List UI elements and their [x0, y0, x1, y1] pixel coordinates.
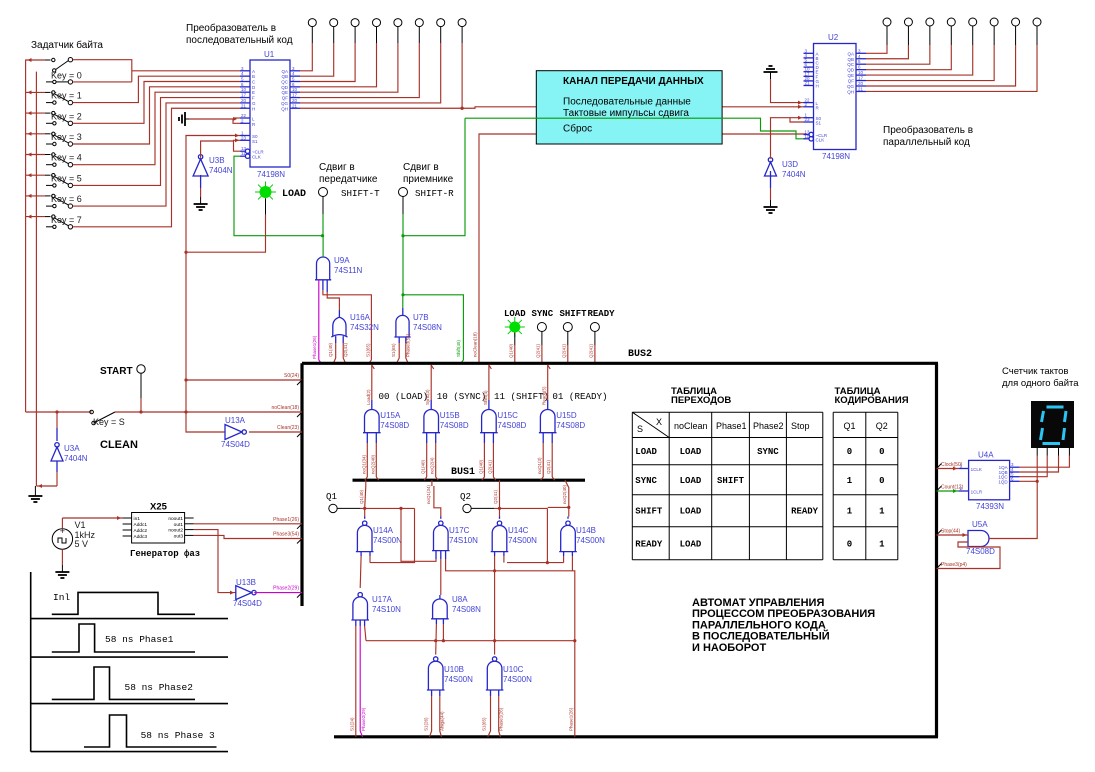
svg-text:Q2(41): Q2(41)	[487, 459, 492, 474]
svg-text:последовательный код: последовательный код	[186, 35, 293, 46]
timing separator 1	[31, 618, 228, 620]
svg-text:0: 0	[879, 447, 884, 457]
svg-text:START: START	[100, 366, 133, 377]
wire U10B inputs to bottom bus	[431, 690, 433, 696]
wire U1 QE to connector	[300, 43, 398, 92]
wire U3B output to U1 S1 and CLR	[201, 140, 240, 158]
connector indicator SYNC	[537, 323, 546, 332]
bus box bottom edge	[334, 735, 938, 738]
wire V1 to X25 in1	[61, 518, 63, 529]
wire U14B output cross link	[548, 506, 569, 508]
svg-text:23: 23	[241, 135, 247, 140]
svg-text:23: 23	[805, 117, 811, 122]
svg-text:H: H	[816, 84, 819, 89]
svg-text:00 (LOAD): 00 (LOAD)	[379, 391, 429, 402]
ground sideways near U1	[185, 118, 189, 120]
svg-text:noout1: noout1	[168, 516, 183, 522]
svg-text:S1(24): S1(24)	[350, 717, 355, 731]
connector SHIFT-T	[319, 188, 328, 197]
wire U14C output up	[499, 508, 501, 516]
svg-text:передатчике: передатчике	[319, 174, 378, 185]
svg-text:SHIFT-R: SHIFT-R	[415, 188, 454, 199]
svg-text:7404N: 7404N	[209, 166, 233, 175]
svg-text:74S10N: 74S10N	[449, 536, 478, 545]
svg-text:58 ns Phase 3: 58 ns Phase 3	[141, 730, 215, 741]
table coding grid	[832, 412, 834, 560]
wire X25 noout2 to U13B	[194, 530, 236, 593]
stub noClean(18) on box left edge	[297, 412, 302, 417]
wire U15B output to BUS2	[430, 400, 432, 410]
svg-text:11: 11	[805, 134, 810, 139]
wire U13A output Clean to box	[249, 431, 302, 433]
svg-text:noClean(18): noClean(18)	[473, 332, 478, 357]
svg-text:74S08D: 74S08D	[556, 421, 585, 430]
junction dots on S0 net	[184, 251, 187, 254]
wire U14C input1 down to U10C output	[494, 552, 496, 556]
wire ground to U1 L R pins	[189, 119, 240, 123]
svg-text:Stop: Stop	[791, 421, 810, 431]
wire SYNC indicator to bus2	[541, 332, 543, 346]
switch Key = 2	[26, 112, 45, 114]
svg-text:74S04D: 74S04D	[233, 599, 262, 608]
IC U2 74198N body	[814, 44, 857, 150]
wire Q1 to U17C input1	[401, 508, 436, 561]
svg-text:Последовательные данные: Последовательные данные	[563, 97, 691, 108]
wire U7B output green up	[402, 295, 404, 308]
svg-text:58 ns Phase1: 58 ns Phase1	[105, 634, 174, 645]
svg-text:noQ2(40): noQ2(40)	[562, 484, 567, 504]
wire inner bus corner to ground	[36, 485, 57, 487]
svg-text:74S04D: 74S04D	[221, 440, 250, 449]
svg-text:B: B	[252, 74, 255, 79]
waveform Phase1	[52, 624, 195, 652]
svg-text:17: 17	[292, 93, 298, 98]
inverter U13B 74S04D	[236, 586, 252, 600]
svg-text:21: 21	[292, 103, 298, 108]
svg-text:1: 1	[879, 507, 885, 517]
svg-text:QA: QA	[281, 69, 288, 74]
wire U3B input to ground	[200, 175, 202, 188]
wire V1 to ground	[61, 549, 63, 565]
svg-text:QA: QA	[847, 51, 854, 56]
switch Key = 6	[26, 195, 45, 197]
timing separator 2	[31, 656, 228, 658]
wire U1 QG to connector	[300, 43, 441, 103]
svg-text:74S00N: 74S00N	[503, 675, 532, 684]
wire Q2 node line	[471, 507, 494, 509]
inverter U3A 7404N below CLEAN wire	[56, 412, 58, 428]
svg-text:74198N: 74198N	[822, 152, 850, 161]
svg-text:SHIFT: SHIFT	[635, 507, 663, 517]
svg-text:SYNC: SYNC	[532, 309, 554, 319]
svg-text:Ready(5): Ready(5)	[542, 386, 547, 405]
connector J6 top-left	[415, 19, 423, 27]
svg-text:A: A	[252, 69, 255, 74]
wire U16A input1 to bus2	[335, 336, 337, 343]
wire U3A input to ground corner	[56, 461, 58, 472]
bus box right edge	[935, 363, 938, 737]
svg-text:для одного байта: для одного байта	[1002, 378, 1079, 389]
wire Stop stub to U5A input1	[937, 534, 969, 536]
connector J3 top-left	[351, 19, 359, 27]
bus BUS1	[353, 479, 586, 482]
wire U2 QA to connector	[866, 45, 887, 53]
svg-text:0: 0	[847, 447, 852, 457]
wire BUS1 stub to U17C output	[431, 480, 433, 486]
bus box left edge	[300, 363, 303, 606]
timing diagram axis	[30, 572, 32, 752]
svg-text:Преобразователь в: Преобразователь в	[883, 124, 973, 136]
svg-text:BUS2: BUS2	[628, 349, 652, 360]
LED LOAD state indicator green star	[505, 317, 525, 337]
wire SHIFT indicator to bus2	[567, 332, 569, 346]
wire lower rail horizontal	[366, 640, 575, 642]
svg-text:И НАОБОРОТ: И НАОБОРОТ	[692, 642, 766, 654]
svg-text:Счетчик тактов: Счетчик тактов	[1002, 366, 1068, 377]
svg-text:S1(65): S1(65)	[482, 717, 487, 731]
NAND gate U14C 74S00N	[497, 521, 501, 525]
U1 pins S0 S1	[240, 135, 250, 137]
7-segment digit 0 cyan segments	[1041, 407, 1067, 444]
svg-text:CLEAN: CLEAN	[100, 439, 138, 451]
svg-text:Phase3(p4): Phase3(p4)	[941, 562, 967, 568]
svg-text:U14C: U14C	[508, 526, 529, 535]
connector indicator READY	[590, 323, 599, 332]
NAND gate U14B 74S00N	[566, 521, 570, 525]
svg-text:7404N: 7404N	[782, 170, 806, 179]
wire U16A input2 to bus2	[342, 336, 344, 343]
wire BUS1 stub to Q1 node	[365, 480, 367, 486]
timing separator 3	[31, 703, 228, 705]
svg-text:01 (READY): 01 (READY)	[552, 391, 607, 402]
svg-text:Sync(3): Sync(3)	[425, 389, 430, 405]
svg-text:Q1: Q1	[326, 491, 338, 502]
svg-text:out3: out3	[174, 533, 184, 539]
wire U3D input to ground	[770, 176, 772, 188]
svg-text:U14B: U14B	[576, 526, 596, 535]
svg-text:74S08N: 74S08N	[452, 605, 481, 614]
svg-text:ПАРАЛЛЕЛЬНОГО КОДА: ПАРАЛЛЕЛЬНОГО КОДА	[692, 619, 826, 631]
svg-text:Phase1: Phase1	[716, 421, 747, 431]
svg-text:Phase1(26): Phase1(26)	[273, 517, 299, 523]
AND gate U9A 74S11N	[317, 257, 330, 280]
svg-text:Phase3(54): Phase3(54)	[406, 333, 411, 357]
table header diagonal	[632, 412, 669, 437]
svg-text:приемнике: приемнике	[403, 174, 454, 185]
ground above U2 L pin	[770, 72, 772, 79]
stub Count(12) on box right edge	[937, 486, 942, 491]
switch Key = 4	[26, 154, 45, 156]
svg-text:SYNC: SYNC	[635, 476, 657, 486]
svg-text:noQ1(34): noQ1(34)	[361, 454, 366, 474]
svg-text:LOAD: LOAD	[282, 189, 306, 200]
wire Clock stub to U4A 1CLK	[937, 468, 959, 470]
svg-text:LOAD: LOAD	[680, 507, 702, 517]
svg-text:U15A: U15A	[380, 411, 401, 420]
wire U15B inputs to BUS1	[426, 433, 428, 443]
svg-text:74S32N: 74S32N	[350, 323, 379, 332]
AND gate U5A 74S08D	[968, 531, 989, 547]
connector K7 top-right	[1012, 18, 1020, 26]
wire Q1 node line	[337, 507, 361, 509]
svg-text:5 V: 5 V	[75, 539, 89, 549]
svg-text:QD: QD	[847, 68, 855, 73]
AND gate U15D 74S08D	[540, 410, 555, 433]
wire U13B output Phase2 magenta to box	[254, 592, 302, 594]
connector K4 top-right	[947, 18, 955, 26]
wire green U1 CLK to SHIFT-T node	[234, 156, 323, 236]
svg-text:S1: S1	[816, 121, 822, 126]
wire Q1 feedback to U14A input2	[370, 508, 415, 562]
connector K2 top-right	[904, 18, 912, 26]
wire noClean bus2 to channel reset	[479, 134, 806, 363]
svg-text:Phase1(26): Phase1(26)	[312, 335, 317, 359]
svg-text:noQ1(3): noQ1(3)	[537, 457, 542, 474]
svg-text:Преобразователь в: Преобразователь в	[186, 22, 276, 34]
wire READY indicator to bus2	[594, 332, 596, 346]
svg-text:Тактовые импульсы сдвига: Тактовые импульсы сдвига	[563, 108, 689, 119]
svg-text:Load(2): Load(2)	[366, 389, 371, 405]
svg-text:QF: QF	[848, 79, 855, 84]
inverter U13A 74S04D	[225, 425, 242, 440]
svg-text:Inl: Inl	[53, 592, 70, 603]
svg-text:noQ1(34): noQ1(34)	[426, 484, 431, 504]
wire U5A output to 7seg stub	[989, 481, 1037, 538]
svg-text:G: G	[252, 101, 256, 106]
svg-text:U10C: U10C	[503, 665, 524, 674]
stub Stop(44) on box right edge	[937, 530, 942, 535]
connector K5 top-right	[969, 18, 977, 26]
wire U1 QC to connector	[300, 43, 355, 82]
svg-text:SHIFT: SHIFT	[717, 476, 745, 486]
svg-text:Clock(50): Clock(50)	[941, 462, 963, 468]
svg-text:0: 0	[879, 476, 884, 486]
svg-text:noout2: noout2	[168, 528, 183, 534]
svg-text:74S00N: 74S00N	[508, 536, 537, 545]
block КАНАЛ ПЕРЕДАЧИ ДАННЫХ cyan box	[536, 71, 722, 144]
svg-text:F: F	[252, 96, 255, 101]
timing bottom line	[31, 751, 228, 753]
wire SHIFT-R down green	[402, 197, 404, 215]
svg-text:QB: QB	[281, 74, 288, 79]
U2 right pins QA-QH	[856, 52, 866, 54]
AND gate U15A 74S08D	[365, 410, 380, 433]
wire U17C input3 to lower rail	[445, 551, 447, 559]
svg-text:U16A: U16A	[350, 313, 371, 322]
wire U17C input2 down to U8A output	[440, 551, 442, 559]
svg-text:Key = 4: Key = 4	[51, 153, 82, 163]
svg-text:Q1(40): Q1(40)	[421, 459, 426, 474]
svg-text:Key = 6: Key = 6	[51, 194, 82, 204]
ground below U3B	[200, 197, 202, 204]
svg-text:QC: QC	[847, 62, 855, 67]
svg-text:LOAD: LOAD	[635, 447, 657, 457]
wire LOAD indicator to bus2	[514, 333, 516, 346]
svg-text:U17C: U17C	[449, 526, 470, 535]
NAND gate U17A 74S10N	[358, 593, 362, 597]
svg-text:Key = 1: Key = 1	[51, 91, 82, 101]
svg-text:U8A: U8A	[452, 595, 468, 604]
wire U1 QF to connector	[300, 43, 419, 98]
svg-text:10 (SYNC): 10 (SYNC)	[437, 391, 487, 402]
svg-text:Q1(40): Q1(40)	[328, 342, 333, 357]
svg-text:Q1(40): Q1(40)	[359, 489, 364, 504]
wire Phase3 stub to U5A input2	[937, 542, 1001, 569]
wire U14A output up	[364, 508, 366, 516]
svg-text:U2: U2	[828, 33, 839, 42]
svg-text:Сброс: Сброс	[563, 123, 592, 135]
wire LED LOAD down to S0 net	[265, 199, 267, 215]
wire switch 4 to U1 pin	[73, 92, 240, 165]
wires U4A outputs to 7seg	[1020, 456, 1070, 468]
wire green Count stub to U4A 1CLR	[937, 490, 959, 492]
svg-text:QB: QB	[847, 57, 854, 62]
wire net S0/noClean vertical	[186, 136, 240, 433]
svg-text:Q1(40): Q1(40)	[509, 343, 514, 358]
svg-text:Phase2(29): Phase2(29)	[361, 707, 366, 731]
svg-text:Задатчик байта: Задатчик байта	[31, 39, 103, 51]
wire U9A input3 to U16A output	[326, 280, 328, 292]
wire BUS1 stub to Q2 node	[499, 480, 501, 486]
svg-text:QH: QH	[847, 89, 854, 94]
wire X25 out1 Phase1 to box	[194, 523, 302, 525]
svg-text:U7B: U7B	[413, 313, 429, 322]
wire U8A inputs	[435, 619, 437, 624]
svg-text:1: 1	[879, 539, 885, 549]
stub Clock(50) on box right edge	[937, 464, 942, 469]
svg-text:22: 22	[241, 113, 247, 118]
wire U7B input1 to bus2	[398, 337, 400, 343]
svg-text:74393N: 74393N	[976, 502, 1004, 511]
U1 left pins A-H	[240, 70, 250, 72]
wire U14A input1 down to U17A output	[360, 552, 362, 556]
ground below V1	[61, 565, 63, 572]
svg-text:QG: QG	[847, 84, 855, 89]
wire Q2 feedback to U14C input2 and U14B input1	[507, 508, 547, 562]
connector K1 top-right	[883, 18, 891, 26]
svg-text:Count(12): Count(12)	[941, 485, 964, 491]
wire switch 0 to U1 pin A	[73, 60, 132, 82]
stub S0(24) on box left edge	[186, 379, 302, 381]
wire U2 QB to connector	[866, 45, 908, 59]
svg-text:Phase3(54): Phase3(54)	[273, 532, 299, 538]
inverter U3D 7404N	[765, 162, 777, 176]
svg-text:U5A: U5A	[972, 520, 988, 529]
svg-text:U13B: U13B	[236, 578, 256, 587]
svg-text:Addc1: Addc1	[134, 522, 148, 528]
connector K8 top-right	[1033, 18, 1041, 26]
svg-text:QC: QC	[281, 80, 289, 85]
svg-text:20: 20	[292, 98, 298, 103]
U4A right pins 1QA-1QD	[1010, 466, 1020, 468]
svg-text:17: 17	[241, 93, 247, 98]
wire U2 QH to connector	[866, 45, 1037, 91]
svg-text:U4A: U4A	[978, 451, 994, 460]
svg-text:LOAD: LOAD	[680, 476, 702, 486]
wire U15D output to BUS2	[547, 400, 549, 410]
svg-text:U14A: U14A	[373, 526, 394, 535]
NAND gate U17C 74S10N	[439, 521, 443, 525]
stub Phase3(54) lower on box right edge	[937, 564, 942, 569]
wire U2 QG to connector	[866, 45, 1016, 86]
svg-text:Q2(41): Q2(41)	[343, 342, 348, 357]
wire U7B input2 to bus2	[405, 337, 407, 343]
svg-text:ПРОЦЕССОМ ПРЕОБРАЗОВАНИЯ: ПРОЦЕССОМ ПРЕОБРАЗОВАНИЯ	[692, 608, 875, 620]
wire U10C inputs to bottom bus	[490, 690, 492, 696]
connector K3 top-right	[926, 18, 934, 26]
stub Phase3(54) on box left edge	[297, 539, 302, 544]
svg-text:Key = 3: Key = 3	[51, 132, 82, 142]
svg-text:ПЕРЕХОДОВ: ПЕРЕХОДОВ	[671, 395, 731, 406]
stub Phase2(29) on box left edge	[297, 593, 302, 598]
AND gate U15C 74S08D	[482, 410, 497, 433]
connector J1 top-left	[308, 19, 316, 27]
U1 right pins QA-QH	[290, 70, 300, 72]
svg-text:E: E	[252, 90, 255, 95]
svg-text:1CLR: 1CLR	[971, 490, 983, 495]
svg-text:Addc3: Addc3	[134, 534, 148, 540]
wire U15A inputs to BUS1	[366, 433, 368, 443]
svg-text:74S00N: 74S00N	[373, 536, 402, 545]
connector indicator SHIFT	[563, 323, 572, 332]
wire switch 6 to U1 pin	[73, 103, 240, 206]
wire green channel clock	[465, 118, 806, 139]
svg-text:CLK: CLK	[816, 137, 825, 142]
svg-text:CLK: CLK	[252, 155, 261, 160]
svg-text:QE: QE	[281, 90, 288, 95]
wire switch 2 to U1 pin	[73, 82, 240, 124]
wire U2 QE to connector	[866, 45, 973, 75]
waveform Phase 3	[84, 715, 217, 747]
svg-text:U9A: U9A	[334, 256, 350, 265]
svg-text:58 ns Phase2: 58 ns Phase2	[125, 682, 194, 693]
svg-text:QD: QD	[281, 85, 289, 90]
wire U15C output to BUS2	[488, 400, 490, 410]
switch Key = 1	[26, 91, 45, 93]
U1 pins L R	[240, 117, 250, 119]
wire U15C inputs to BUS1	[483, 433, 485, 443]
U2 pins CLR CLK	[809, 132, 813, 136]
svg-text:U3A: U3A	[64, 444, 80, 453]
connector J4 top-left	[373, 19, 381, 27]
svg-text:U15D: U15D	[556, 411, 577, 420]
svg-text:in1: in1	[134, 516, 141, 522]
wire U14B output to BUS1	[567, 517, 569, 519]
svg-text:U10B: U10B	[444, 665, 464, 674]
svg-text:U1: U1	[264, 50, 275, 59]
svg-text:READY: READY	[791, 507, 819, 517]
connector K6 top-right	[990, 18, 998, 26]
svg-text:QH: QH	[281, 106, 288, 111]
svg-text:Q1(40): Q1(40)	[478, 459, 483, 474]
svg-text:параллельный код: параллельный код	[883, 137, 970, 148]
svg-text:X25: X25	[150, 502, 168, 513]
svg-text:74198N: 74198N	[257, 170, 285, 179]
svg-text:noQ2(4): noQ2(4)	[430, 457, 435, 474]
AND gate U8A 74S08N	[433, 599, 448, 619]
switch Key = 0	[26, 59, 45, 61]
wire START down	[140, 373, 142, 398]
connector J7 top-left	[437, 19, 445, 27]
wire U9A input1 magenta to bus2	[318, 280, 320, 360]
svg-text:S1(65): S1(65)	[366, 343, 371, 357]
U1 pins CLR CLK	[245, 149, 249, 153]
svg-text:7404N: 7404N	[64, 454, 88, 463]
switch Key = S	[92, 421, 96, 425]
svg-text:S1(65): S1(65)	[391, 343, 396, 357]
svg-text:74S08N: 74S08N	[413, 323, 442, 332]
svg-text:U13A: U13A	[225, 416, 246, 425]
